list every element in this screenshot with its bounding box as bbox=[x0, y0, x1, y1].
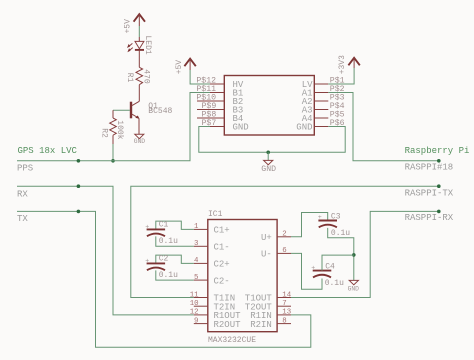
junction C4/GND bbox=[352, 253, 356, 257]
svg-text:P$8: P$8 bbox=[202, 109, 217, 119]
svg-text:+: + bbox=[145, 257, 149, 264]
wire C3 to GND bbox=[328, 228, 354, 281]
svg-text:C2+: C2+ bbox=[214, 260, 230, 270]
supply +5V (left, above LED1) bbox=[124, 14, 145, 33]
svg-text:+: + bbox=[145, 223, 149, 230]
svg-text:C1: C1 bbox=[159, 221, 169, 230]
pin 11 T1IN bbox=[190, 291, 235, 303]
pin 13 R1IN bbox=[250, 309, 291, 321]
svg-text:RX: RX bbox=[17, 189, 28, 199]
capacitor C2 0.1u bbox=[145, 255, 194, 281]
wire Q1 base to R2 bbox=[113, 109, 130, 111]
svg-text:2: 2 bbox=[282, 231, 286, 239]
svg-text:P$5: P$5 bbox=[330, 109, 345, 119]
label Raspberry Pi bbox=[405, 146, 470, 156]
wire net RASPPI-TX bbox=[131, 184, 454, 297]
wire +5V to LED1 anode bbox=[138, 26, 140, 37]
pin 8 R2IN bbox=[250, 317, 291, 329]
svg-text:P$9: P$9 bbox=[202, 101, 217, 111]
capacitor C1 0.1u bbox=[145, 221, 194, 247]
pin 9 R2OUT bbox=[194, 317, 241, 329]
pin 2 U+ bbox=[261, 231, 291, 243]
svg-text:U-: U- bbox=[261, 250, 272, 260]
svg-text:13: 13 bbox=[282, 309, 291, 317]
svg-text:Raspberry Pi: Raspberry Pi bbox=[405, 146, 470, 156]
level shifter IC box bbox=[224, 76, 314, 136]
svg-text:BC548: BC548 bbox=[148, 107, 172, 116]
svg-text:+5V: +5V bbox=[124, 19, 133, 34]
svg-text:0.1u: 0.1u bbox=[331, 229, 350, 238]
pin P$10 B2 bbox=[196, 92, 243, 107]
svg-text:P$10: P$10 bbox=[196, 92, 216, 102]
capacitor C4 0.1u bbox=[311, 262, 344, 288]
resistor R1 470 bbox=[125, 67, 150, 101]
svg-text:LED1: LED1 bbox=[143, 36, 152, 55]
pin P$3 A2 bbox=[302, 92, 345, 107]
svg-text:C4: C4 bbox=[325, 262, 335, 271]
wire R2 to PPS net bbox=[112, 144, 114, 161]
pin 3 C1- bbox=[194, 240, 230, 252]
svg-text:R2OUT: R2OUT bbox=[214, 320, 242, 330]
svg-text:C1+: C1+ bbox=[214, 226, 230, 236]
svg-text:14: 14 bbox=[282, 291, 291, 299]
svg-text:P$3: P$3 bbox=[330, 92, 345, 102]
svg-text:GND: GND bbox=[296, 123, 312, 133]
pin 10 T2IN bbox=[190, 300, 235, 312]
LED LED1 bbox=[127, 36, 152, 68]
svg-text:5: 5 bbox=[194, 274, 198, 282]
svg-text:PPS: PPS bbox=[17, 164, 33, 174]
pin P$8 B4 bbox=[197, 109, 243, 124]
svg-text:P$4: P$4 bbox=[330, 101, 345, 111]
svg-text:4: 4 bbox=[194, 257, 199, 265]
pin 6 U- bbox=[261, 247, 291, 259]
svg-text:P$11: P$11 bbox=[196, 84, 216, 94]
svg-text:470: 470 bbox=[141, 69, 150, 84]
pin 1 C1+ bbox=[194, 223, 230, 235]
wire net RX bbox=[17, 184, 194, 315]
pin P$4 A3 bbox=[302, 101, 345, 116]
svg-text:+3V3: +3V3 bbox=[338, 55, 347, 74]
ground under Q1 bbox=[134, 134, 146, 145]
svg-text:RASPPI#18: RASPPI#18 bbox=[405, 162, 454, 172]
svg-text:IC1: IC1 bbox=[208, 210, 223, 219]
svg-text:0.1u: 0.1u bbox=[159, 271, 178, 280]
svg-text:9: 9 bbox=[194, 317, 198, 325]
pin 4 C2+ bbox=[194, 257, 230, 269]
capacitor C3 0.1u bbox=[318, 213, 350, 238]
pin P$12 HV bbox=[196, 75, 244, 90]
supply +5V (at level shifter HV) bbox=[175, 59, 196, 75]
svg-text:6: 6 bbox=[282, 247, 286, 255]
ground under level shifter bbox=[261, 152, 276, 174]
junction R2/PPS bbox=[111, 159, 115, 163]
svg-text:C2: C2 bbox=[159, 255, 169, 264]
svg-text:100k: 100k bbox=[115, 120, 124, 139]
svg-text:R2: R2 bbox=[100, 128, 109, 138]
wire LV pin to +3V3 bbox=[328, 68, 354, 84]
pin P$9 B3 bbox=[197, 101, 243, 116]
svg-text:RASPPI-TX: RASPPI-TX bbox=[405, 188, 454, 198]
svg-text:1: 1 bbox=[194, 223, 199, 231]
label GPS 18x LVC bbox=[18, 146, 78, 156]
pin P$7 GND bbox=[202, 118, 249, 133]
svg-text:+: + bbox=[318, 214, 322, 221]
wire C4 top to GND junction bbox=[322, 255, 354, 271]
svg-text:+: + bbox=[311, 264, 315, 271]
pin 14 T1OUT bbox=[245, 291, 292, 303]
svg-text:C2-: C2- bbox=[214, 276, 230, 286]
svg-text:MAX3232CUE: MAX3232CUE bbox=[208, 336, 256, 345]
wire net RASPPI-RX bbox=[291, 210, 454, 298]
pin P$2 A1 bbox=[302, 84, 345, 99]
junction GND rail bbox=[266, 151, 270, 155]
pin 7 T2OUT bbox=[245, 300, 291, 312]
svg-text:+5V: +5V bbox=[175, 60, 184, 75]
pin P$11 B1 bbox=[196, 84, 243, 99]
pin 5 C2- bbox=[194, 274, 230, 286]
pin P$5 A4 bbox=[302, 109, 345, 124]
pin P$6 GND bbox=[296, 118, 344, 133]
svg-text:GND: GND bbox=[233, 123, 249, 133]
svg-text:P$12: P$12 bbox=[196, 75, 216, 85]
svg-text:GND: GND bbox=[134, 138, 146, 145]
svg-text:7: 7 bbox=[282, 300, 286, 308]
op-amp IC1 MAX3232CUE box bbox=[208, 210, 277, 345]
resistor R2 100k bbox=[100, 110, 125, 144]
wire U- to C4 bbox=[291, 253, 322, 289]
pin 12 R1OUT bbox=[190, 309, 241, 321]
svg-text:8: 8 bbox=[282, 317, 286, 325]
wire level shifter GND rail bbox=[199, 127, 345, 153]
wire net PPS bbox=[17, 93, 210, 174]
svg-text:GND: GND bbox=[348, 285, 360, 292]
wire U+ to C3 bbox=[291, 213, 328, 237]
svg-text:TX: TX bbox=[17, 214, 28, 224]
svg-text:U+: U+ bbox=[261, 233, 272, 243]
svg-text:R2IN: R2IN bbox=[250, 320, 272, 330]
svg-text:GND: GND bbox=[261, 165, 276, 174]
svg-text:C1-: C1- bbox=[214, 243, 230, 253]
transistor Q1 BC548 bbox=[131, 101, 173, 134]
wire +5V to HV pin P$12 bbox=[190, 70, 210, 84]
wire net TX bbox=[17, 210, 311, 348]
svg-text:0.1u: 0.1u bbox=[159, 237, 178, 246]
svg-text:11: 11 bbox=[190, 291, 199, 299]
svg-text:0.1u: 0.1u bbox=[325, 279, 344, 288]
svg-text:C3: C3 bbox=[331, 213, 341, 222]
ground at C3/C4 bbox=[348, 280, 360, 292]
svg-text:12: 12 bbox=[190, 309, 199, 317]
pin P$1 LV bbox=[302, 75, 345, 90]
supply +3V3 bbox=[338, 55, 360, 74]
svg-text:3: 3 bbox=[194, 240, 198, 248]
svg-text:R1: R1 bbox=[125, 73, 134, 83]
svg-text:10: 10 bbox=[190, 300, 199, 308]
svg-text:RASPPI-RX: RASPPI-RX bbox=[405, 213, 454, 223]
svg-text:GPS 18x LVC: GPS 18x LVC bbox=[18, 146, 78, 156]
wire net RASPPI#18 bbox=[328, 93, 453, 173]
